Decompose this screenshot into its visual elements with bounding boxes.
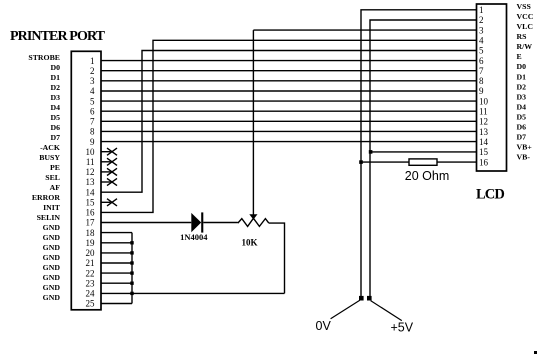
svg-text:VB-: VB- — [517, 153, 531, 162]
svg-text:17: 17 — [86, 218, 96, 228]
svg-text:SELIN: SELIN — [37, 213, 61, 222]
LCD pin numbers 1-16 — [479, 5, 489, 167]
wire potentiometer right terminal to ground bus — [269, 223, 285, 293]
svg-text:1N4004: 1N4004 — [180, 232, 208, 242]
svg-text:D2: D2 — [517, 82, 527, 91]
wire D2 pin4 to LCD9 — [101, 90, 477, 92]
svg-text:3: 3 — [479, 25, 484, 35]
svg-text:-ACK: -ACK — [40, 143, 60, 152]
svg-text:D4: D4 — [50, 103, 60, 112]
wire D5 pin7 to LCD12 — [101, 120, 477, 122]
svg-text:13: 13 — [86, 177, 96, 187]
svg-text:D6: D6 — [50, 123, 60, 132]
wire pin17 SELIN to diode anode — [101, 222, 191, 224]
svg-text:D3: D3 — [50, 93, 60, 102]
svg-text:INIT: INIT — [43, 203, 61, 212]
svg-text:2: 2 — [90, 66, 95, 76]
svg-text:12: 12 — [479, 117, 488, 127]
wire pin14 AF to LCD R/W — [101, 51, 477, 193]
svg-text:7: 7 — [90, 117, 95, 127]
svg-text:22: 22 — [86, 268, 95, 278]
svg-text:STROBE: STROBE — [28, 53, 60, 62]
svg-text:7: 7 — [479, 66, 484, 76]
svg-text:21: 21 — [86, 258, 95, 268]
svg-text:GND: GND — [43, 283, 61, 292]
svg-text:D5: D5 — [517, 112, 527, 121]
leader +5V — [371, 301, 402, 321]
svg-text:20: 20 — [86, 248, 96, 258]
svg-text:13: 13 — [479, 127, 489, 137]
svg-text:6: 6 — [90, 106, 95, 116]
potentiometer wiper arrow — [249, 30, 257, 220]
svg-text:5: 5 — [90, 96, 95, 106]
svg-text:E: E — [517, 52, 522, 61]
wire LCD VB+ pin15 to +5V rail — [370, 151, 477, 153]
svg-text:GND: GND — [43, 243, 61, 252]
svg-text:D0: D0 — [517, 62, 527, 71]
svg-text:GND: GND — [43, 263, 61, 272]
svg-text:LCD: LCD — [476, 187, 504, 203]
junction pin 21 on ground bus — [130, 261, 133, 264]
svg-text:0V: 0V — [316, 319, 332, 333]
svg-text:11: 11 — [479, 107, 488, 117]
svg-text:8: 8 — [90, 127, 95, 137]
svg-text:4: 4 — [90, 86, 95, 96]
wire D0 pin2 to LCD7 — [101, 70, 477, 72]
junction pin 23 on ground bus — [130, 282, 133, 285]
LCD signal labels — [517, 2, 534, 162]
LCD connector body — [477, 4, 507, 171]
svg-text:ERROR: ERROR — [32, 193, 61, 202]
svg-text:PRINTER PORT: PRINTER PORT — [10, 29, 106, 44]
svg-text:D5: D5 — [50, 113, 60, 122]
potentiometer R2 10K element — [238, 218, 269, 226]
wire GND pin 23 stub — [101, 282, 132, 284]
svg-text:20 Ohm: 20 Ohm — [405, 169, 449, 183]
wire VLC LCD pin3 stub — [253, 29, 476, 31]
svg-text:GND: GND — [43, 253, 61, 262]
svg-text:D2: D2 — [50, 83, 60, 92]
svg-text:23: 23 — [86, 278, 96, 288]
svg-text:8: 8 — [479, 76, 484, 86]
wire GND pin 19 stub — [101, 242, 132, 244]
svg-text:D0: D0 — [50, 63, 60, 72]
printer port pin numbers 1-25 — [86, 56, 96, 309]
no-connect X on pin 12 — [101, 168, 117, 175]
svg-text:2: 2 — [479, 15, 484, 25]
no-connect X on pin 15 — [101, 199, 117, 206]
wire D7 pin9 to LCD14 — [101, 141, 477, 143]
printer port connector J1 body — [71, 51, 101, 310]
svg-text:D4: D4 — [517, 102, 527, 111]
junction pin 24 on ground bus — [130, 292, 133, 295]
junction VB+ on +5V rail — [369, 150, 373, 154]
svg-text:GND: GND — [43, 293, 61, 302]
svg-text:1: 1 — [90, 56, 95, 66]
wire GND pin 20 stub — [101, 252, 132, 254]
svg-text:16: 16 — [86, 208, 96, 218]
svg-text:D7: D7 — [517, 133, 527, 142]
junction pin 19 on ground bus — [130, 241, 133, 244]
svg-text:5: 5 — [479, 46, 484, 56]
wire D3 pin5 to LCD10 — [101, 100, 477, 102]
svg-text:11: 11 — [86, 157, 95, 167]
svg-text:14: 14 — [479, 137, 489, 147]
svg-text:AF: AF — [50, 183, 61, 192]
junction VB- on 0V rail — [359, 160, 363, 164]
wire GND pin 24 stub — [101, 292, 132, 294]
svg-text:BUSY: BUSY — [39, 153, 60, 162]
svg-text:GND: GND — [43, 223, 61, 232]
svg-text:R/W: R/W — [517, 42, 533, 51]
wire resistor R1 to LCD VB- pin16 — [437, 161, 477, 163]
junction pin 20 on ground bus — [130, 251, 133, 254]
no-connect X on pin 11 — [101, 158, 117, 165]
svg-text:D1: D1 — [50, 73, 60, 82]
svg-text:D6: D6 — [517, 123, 527, 132]
wire LCD VCC pin2 to +5V rail — [370, 20, 477, 298]
ground bus vertical — [131, 233, 133, 304]
wire STROBE pin1 to LCD E — [101, 60, 477, 62]
no-connect X on pin 10 — [101, 148, 117, 155]
svg-text:VCC: VCC — [517, 12, 534, 21]
junction pin 22 on ground bus — [130, 271, 133, 274]
svg-text:SEL: SEL — [45, 173, 60, 182]
resistor R1 20 Ohm body — [409, 159, 437, 165]
corner mark — [534, 351, 537, 354]
wire D6 pin8 to LCD13 — [101, 130, 477, 132]
svg-text:1: 1 — [479, 5, 484, 15]
svg-text:14: 14 — [86, 187, 96, 197]
wire pin24 row to potentiometer return — [132, 292, 285, 294]
leader 0V — [331, 300, 360, 319]
diode D1 1N4004 — [191, 212, 203, 232]
svg-text:RS: RS — [517, 32, 527, 41]
svg-text:GND: GND — [43, 233, 61, 242]
svg-text:10: 10 — [479, 96, 489, 106]
svg-text:10K: 10K — [241, 238, 257, 248]
svg-text:GND: GND — [43, 273, 61, 282]
wire GND pin 18 stub — [101, 232, 132, 234]
svg-text:PE: PE — [50, 163, 60, 172]
svg-text:18: 18 — [86, 228, 96, 238]
svg-text:19: 19 — [86, 238, 96, 248]
wire GND pin 22 stub — [101, 272, 132, 274]
node +5V terminal dot — [367, 296, 372, 301]
svg-text:3: 3 — [90, 76, 95, 86]
node 0V terminal dot — [359, 296, 364, 301]
svg-text:VB+: VB+ — [517, 143, 533, 152]
wire 0V rail to resistor R1 — [361, 161, 409, 163]
wire diode cathode to potentiometer — [203, 222, 238, 224]
svg-text:6: 6 — [479, 56, 484, 66]
svg-text:4: 4 — [479, 36, 484, 46]
wire GND pin 25 stub — [101, 303, 132, 305]
svg-text:15: 15 — [479, 147, 489, 157]
svg-text:9: 9 — [90, 137, 95, 147]
wire D4 pin6 to LCD11 — [101, 110, 477, 112]
svg-text:15: 15 — [86, 198, 96, 208]
svg-text:+5V: +5V — [391, 321, 414, 335]
wire D1 pin3 to LCD8 — [101, 80, 477, 82]
wire LCD VSS pin1 to 0V rail — [361, 10, 477, 298]
svg-text:16: 16 — [479, 157, 489, 167]
svg-text:24: 24 — [86, 289, 96, 299]
svg-text:25: 25 — [86, 299, 96, 309]
svg-text:VLC: VLC — [517, 22, 534, 31]
svg-text:12: 12 — [86, 167, 95, 177]
svg-text:10: 10 — [86, 147, 96, 157]
svg-text:VSS: VSS — [517, 2, 531, 11]
svg-text:D3: D3 — [517, 92, 527, 101]
printer port signal labels — [28, 53, 60, 302]
svg-text:D1: D1 — [517, 72, 527, 81]
svg-text:D7: D7 — [50, 133, 60, 142]
wire pin16 INIT to LCD RS — [101, 40, 477, 212]
no-connect X on pin 13 — [101, 178, 117, 185]
svg-text:9: 9 — [479, 86, 484, 96]
wire GND pin 21 stub — [101, 262, 132, 264]
